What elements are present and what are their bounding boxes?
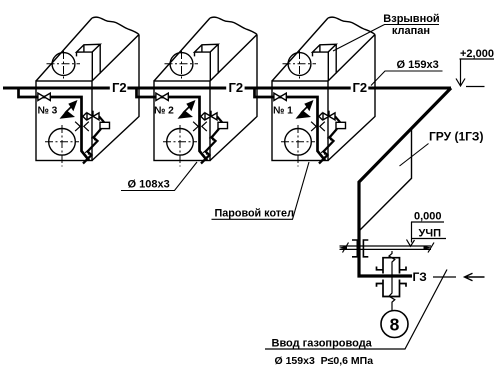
svg-text:Ввод газопровода: Ввод газопровода (272, 338, 373, 350)
svg-text:№ 2: № 2 (154, 106, 174, 117)
boiler unit No.2 (137, 17, 258, 166)
svg-text:Г2: Г2 (112, 80, 127, 95)
svg-text:+2,000: +2,000 (460, 48, 494, 60)
GZ line continuation (433, 276, 456, 278)
svg-text:Ø 159x3: Ø 159x3 (397, 59, 439, 71)
wall sleeve brackets on riser (352, 240, 368, 257)
svg-text:№ 3: № 3 (38, 106, 58, 117)
svg-text:Г2: Г2 (229, 80, 244, 95)
svg-text:Ø 159x3 Р≤0,6 МПа: Ø 159x3 Р≤0,6 МПа (275, 355, 374, 367)
svg-text:ГЗ: ГЗ (413, 270, 427, 284)
svg-text:ГРУ (1ГЗ): ГРУ (1ГЗ) (429, 130, 483, 144)
explosion valve leader (333, 25, 439, 52)
svg-text:УЧП: УЧП (419, 228, 442, 240)
floor level double line with arrows (340, 246, 432, 249)
boiler unit No.3 (19, 17, 140, 166)
leader for 159x3 (371, 71, 443, 86)
svg-text:8: 8 (390, 315, 400, 335)
gas header line G2 (3, 87, 451, 90)
svg-text:Паровой котел: Паровой котел (215, 208, 295, 220)
svg-text:клапан: клапан (392, 25, 430, 37)
svg-text:Г2: Г2 (353, 80, 368, 95)
GRU leader (400, 144, 429, 167)
svg-text:0,000: 0,000 (414, 211, 442, 223)
GRU cabinet parallelogram (359, 128, 412, 231)
riser: thick diagonal from header to GRU (359, 88, 451, 276)
position circle 8 (381, 311, 408, 338)
foundation sleeve crossing on inlet (389, 251, 395, 311)
svg-text:№ 1: № 1 (273, 106, 293, 117)
svg-text:Взрывной: Взрывной (383, 13, 439, 25)
boiler unit No.1 (255, 17, 376, 166)
svg-text:Ø 108x3: Ø 108x3 (128, 179, 170, 191)
incoming flow arrow (465, 273, 485, 281)
